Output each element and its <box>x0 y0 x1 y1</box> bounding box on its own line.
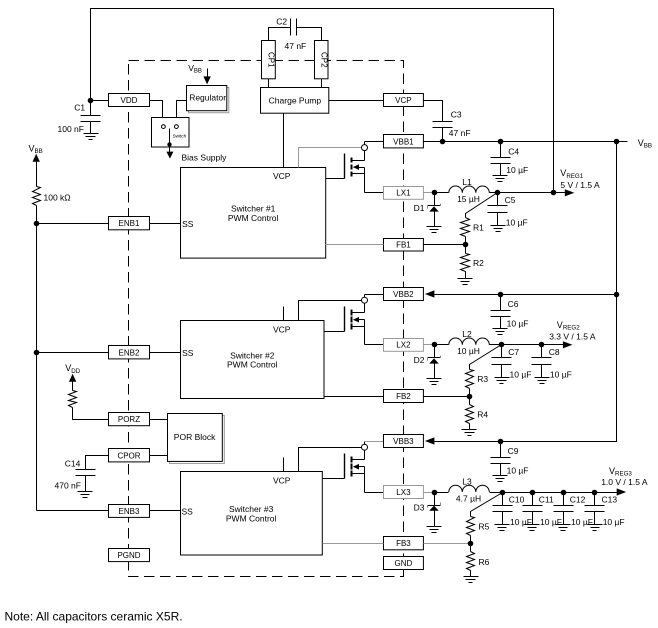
wire Q3 drain to VBB3 pin <box>364 442 366 445</box>
svg-text:47 nF: 47 nF <box>285 41 307 51</box>
wire R5 to FB node <box>470 536 472 544</box>
svg-text:FB3: FB3 <box>396 539 411 548</box>
wire FB2 to divider <box>424 396 470 398</box>
wire ENB1 to SS <box>150 223 181 225</box>
ground (C10) <box>495 524 510 526</box>
wire switcher #2 drive to bubble <box>299 301 362 321</box>
ground (R6) <box>464 576 479 578</box>
svg-text:Note: All capacitors ceramic X: Note: All capacitors ceramic X5R. <box>5 609 183 623</box>
ground (D1) <box>427 226 442 228</box>
wire Q3 source to LX3 pin <box>365 492 384 494</box>
svg-text:47 nF: 47 nF <box>449 128 471 138</box>
wire rail to ENB1 <box>37 223 109 225</box>
wire R4 to ground <box>469 424 471 430</box>
svg-text:VCP: VCP <box>273 324 291 334</box>
svg-text:10 µF: 10 µF <box>510 370 532 380</box>
wire Q2 source to LX2 pin <box>365 344 384 346</box>
wire L1 to output <box>490 192 566 194</box>
ground (C13) <box>588 524 603 526</box>
wire node to L1 <box>435 192 449 194</box>
pin PORZ <box>109 413 150 426</box>
svg-text:C5: C5 <box>505 195 516 205</box>
svg-text:C13: C13 <box>602 494 618 504</box>
svg-text:VBB2: VBB2 <box>393 290 414 299</box>
ground (C5) <box>491 225 506 227</box>
pin VCP <box>384 94 424 107</box>
node C6/VBB2 <box>498 292 504 298</box>
svg-text:CP1: CP1 <box>267 52 276 68</box>
node C8 <box>539 342 545 348</box>
wire charge pump to switcher 1 <box>283 114 285 168</box>
svg-text:POR Block: POR Block <box>174 432 216 442</box>
switch block <box>152 118 190 148</box>
arrow VREG2 output <box>563 341 573 348</box>
svg-text:PWM Control: PWM Control <box>228 213 279 223</box>
IC boundary (dashed) <box>129 61 404 577</box>
svg-text:10 µF: 10 µF <box>603 517 625 527</box>
capacitor C13 <box>594 493 596 506</box>
svg-text:R3: R3 <box>477 374 488 384</box>
wire LX3 to node <box>424 492 435 494</box>
svg-text:C9: C9 <box>508 446 519 456</box>
wire switcher #1 to FB1 <box>326 244 384 246</box>
capacitor C5 <box>497 193 499 206</box>
ground (C4) <box>493 175 508 177</box>
node C7 <box>499 342 505 348</box>
svg-text:VCP: VCP <box>273 171 291 181</box>
svg-text:C10: C10 <box>509 494 525 504</box>
wire L2 to output <box>490 344 564 346</box>
wire CP2 to charge pump <box>321 79 323 88</box>
wire VCP stub switcher 2 <box>283 307 285 321</box>
capacitor C6 <box>500 295 502 311</box>
arrow bias supply <box>169 148 171 153</box>
resistor R6 <box>467 552 475 571</box>
wire FB3 to divider <box>424 543 471 545</box>
pin PGND <box>109 549 150 562</box>
svg-text:SS: SS <box>182 507 194 517</box>
ground (R4) <box>462 429 477 431</box>
svg-text:VCP: VCP <box>395 96 411 105</box>
wire R6 to ground <box>470 571 472 577</box>
node C13 <box>592 490 598 496</box>
svg-text:10 µF: 10 µF <box>550 370 572 380</box>
wire switcher #3 to gate <box>323 478 345 480</box>
svg-text:FB2: FB2 <box>396 392 411 401</box>
svg-text:C3: C3 <box>451 110 462 120</box>
regulator U-REG shadow <box>189 88 229 113</box>
resistor R3 <box>466 370 474 389</box>
wire C1 junction to VDD pin <box>91 100 109 102</box>
svg-text:C12: C12 <box>570 494 586 504</box>
wire Q1 drain to VBB1 pin <box>364 142 366 145</box>
svg-text:C6: C6 <box>508 299 519 309</box>
switcher #2 PWM control block <box>181 321 325 399</box>
wire FB node to R2 <box>465 245 467 254</box>
wire R3 to FB node <box>469 389 471 397</box>
svg-text:10 µF: 10 µF <box>510 517 532 527</box>
regulator block <box>187 86 227 111</box>
svg-text:C1: C1 <box>74 103 85 113</box>
svg-text:L2: L2 <box>462 329 472 339</box>
capacitor C12 <box>563 493 565 506</box>
ground (C9) <box>493 475 508 477</box>
svg-text:470 nF: 470 nF <box>55 481 81 491</box>
wire switcher #3 to FB3 <box>323 543 384 545</box>
diode D2 (schottky) <box>434 345 436 358</box>
node FB1 divider <box>463 242 469 248</box>
wire node to R divider <box>471 493 503 517</box>
node C10 <box>500 490 506 496</box>
svg-text:C2: C2 <box>276 16 287 26</box>
POR block shadow <box>170 416 225 464</box>
wire node to R divider <box>470 345 502 370</box>
wire enable rail <box>36 206 38 511</box>
node VDD/C1 junction <box>88 98 94 104</box>
pin LX3 <box>384 486 424 499</box>
svg-text:L1: L1 <box>462 177 472 187</box>
capacitor C10 <box>502 493 504 506</box>
node LX2/D2 <box>432 342 438 348</box>
node C9/VBB3 <box>498 439 504 445</box>
gate bubble Q3 <box>362 444 368 450</box>
svg-text:R6: R6 <box>479 557 490 567</box>
wire FB node to R4 <box>469 397 471 405</box>
svg-text:CPOR: CPOR <box>117 451 140 460</box>
resistor R5 <box>467 517 475 536</box>
ground (C6) <box>493 328 508 330</box>
wire switcher #2 to FB2 <box>325 396 384 398</box>
node FB2 divider <box>467 394 473 400</box>
pin CP2 <box>315 41 329 79</box>
svg-text:10 µF: 10 µF <box>540 517 562 527</box>
node LX3/D3 <box>432 490 438 496</box>
switcher #3 PWM control block <box>181 472 323 556</box>
svg-text:10 µH: 10 µH <box>457 346 480 356</box>
resistor R2 <box>461 254 470 272</box>
svg-text:FB1: FB1 <box>396 240 411 249</box>
wire ENB2 to SS <box>150 352 181 354</box>
wire switcher #1 to gate <box>326 178 345 180</box>
svg-text:PWM Control: PWM Control <box>227 360 278 370</box>
svg-text:PGND: PGND <box>117 551 140 560</box>
wire PORZ to POR block <box>150 419 168 421</box>
pin VBB1 <box>384 135 424 148</box>
svg-text:R1: R1 <box>473 223 484 233</box>
svg-text:100 kΩ: 100 kΩ <box>44 192 71 202</box>
svg-text:Regulator: Regulator <box>189 93 226 103</box>
svg-text:10 µF: 10 µF <box>571 517 593 527</box>
wire ENB3 to SS <box>150 510 181 512</box>
resistor R4 <box>466 405 474 424</box>
svg-text:4.7 µH: 4.7 µH <box>456 493 481 503</box>
wire node to R divider <box>466 193 498 218</box>
gate bubble Q2 <box>362 297 368 303</box>
svg-text:D2: D2 <box>414 355 425 365</box>
wire rail to ENB2 <box>37 352 109 354</box>
wire R2 to ground <box>465 272 467 279</box>
svg-text:Charge Pump: Charge Pump <box>269 95 322 105</box>
svg-text:3.3 V / 1.5 A: 3.3 V / 1.5 A <box>549 332 596 342</box>
wire VCP to C3 <box>424 101 443 122</box>
inductor L1 <box>449 186 490 193</box>
node VBB rail/VBB2 <box>614 292 620 298</box>
inductor L2 <box>449 338 490 345</box>
capacitor C4 <box>500 142 502 158</box>
pin CPOR <box>109 449 150 462</box>
svg-text:5 V / 1.5 A: 5 V / 1.5 A <box>560 180 600 190</box>
node C5 <box>495 190 501 196</box>
transistor Q3 (PMOS high-side) <box>344 454 346 479</box>
wire Q2 drain to VBB2 pin <box>364 295 366 298</box>
svg-text:VBB3: VBB3 <box>393 437 414 446</box>
svg-text:15 µH: 15 µH <box>457 194 480 204</box>
svg-text:C4: C4 <box>508 147 519 157</box>
wire L3 to output <box>490 492 619 494</box>
wire charge pump to VCP pin <box>329 100 384 102</box>
ground (D3) <box>427 526 442 528</box>
ground (D2) <box>427 378 442 380</box>
svg-text:ENB2: ENB2 <box>119 348 140 357</box>
switch contact 1 <box>162 125 166 129</box>
wire node to L2 <box>435 344 449 346</box>
transistor Q1 (PMOS high-side) <box>344 154 346 179</box>
wire VDD to switch <box>150 101 163 125</box>
node LX1/D1 <box>432 190 438 196</box>
transistor Q2 (PMOS high-side) <box>344 307 346 332</box>
svg-text:ENB1: ENB1 <box>119 219 140 228</box>
inductor L3 <box>449 485 490 492</box>
wire VDD-to-VREG1 top rail <box>91 9 554 193</box>
wire CP1 to charge pump <box>268 79 270 88</box>
capacitor C1 <box>90 101 92 116</box>
resistor PORZ pull-up <box>69 391 77 408</box>
wire CPOR to C14 <box>86 456 109 470</box>
ground (C8) <box>535 377 550 379</box>
diode D3 (schottky) <box>434 493 436 506</box>
wire rail to VBB2 <box>435 294 617 296</box>
capacitor C3 <box>433 121 453 123</box>
svg-text:C14: C14 <box>65 459 81 469</box>
svg-text:PORZ: PORZ <box>118 415 140 424</box>
diode D1 (schottky) <box>434 193 436 206</box>
wire LX1 to node <box>424 192 435 194</box>
arrow VREG3 output <box>617 488 627 495</box>
pin FB3 <box>384 537 424 550</box>
pin LX1 <box>384 187 424 200</box>
wire VCP stub switcher 3 <box>283 458 285 472</box>
svg-text:R2: R2 <box>473 258 484 268</box>
pin VBB2 <box>384 288 424 301</box>
svg-text:1.0 V / 1.5 A: 1.0 V / 1.5 A <box>601 477 648 487</box>
svg-text:L3: L3 <box>462 476 472 486</box>
wire switcher #2 to gate <box>325 331 345 333</box>
svg-text:LX1: LX1 <box>396 189 411 198</box>
node C4/VBB1 <box>498 139 504 145</box>
wire VBB rail <box>435 142 617 442</box>
svg-text:10 µF: 10 µF <box>507 319 529 329</box>
svg-text:R5: R5 <box>479 521 490 531</box>
wire switcher #3 drive to bubble <box>299 448 362 472</box>
svg-text:ENB3: ENB3 <box>119 507 140 516</box>
ground (C12) <box>556 524 571 526</box>
arrow VBB into regulator <box>207 69 209 79</box>
svg-text:LX3: LX3 <box>396 488 411 497</box>
arrow into VBB2 <box>425 290 435 297</box>
svg-text:R4: R4 <box>477 410 488 420</box>
svg-text:VDD: VDD <box>121 96 138 105</box>
ground (C11) <box>525 524 540 526</box>
node VREG1/top-rail <box>551 190 557 196</box>
arrow VREG1 output <box>565 189 575 196</box>
arrow VBB up <box>33 154 40 162</box>
svg-text:C8: C8 <box>549 347 560 357</box>
svg-text:LX2: LX2 <box>396 341 411 350</box>
capacitor C11 <box>532 493 534 506</box>
ground (C7) <box>495 377 510 379</box>
svg-text:D1: D1 <box>414 203 425 213</box>
pin ENB2 <box>109 346 150 359</box>
charge pump block <box>261 88 329 114</box>
svg-text:Bias Supply: Bias Supply <box>182 152 228 162</box>
wire LX2 to node <box>424 344 435 346</box>
capacitor C2 <box>269 28 291 41</box>
svg-text:VBB1: VBB1 <box>393 137 414 146</box>
ground (C1) <box>84 133 99 135</box>
node C12 <box>561 490 567 496</box>
resistor R1 <box>461 218 470 237</box>
gate bubble Q1 <box>362 145 368 151</box>
node rail/ENB1 <box>34 221 40 227</box>
node VBB rail top <box>614 139 620 145</box>
svg-text:VCP: VCP <box>273 475 291 485</box>
svg-text:100 nF: 100 nF <box>58 124 84 134</box>
node C11 <box>530 490 536 496</box>
node rail/ENB2 <box>34 350 40 356</box>
svg-text:Switch: Switch <box>173 134 187 139</box>
svg-text:D3: D3 <box>414 502 425 512</box>
pin VDD <box>109 94 150 107</box>
svg-text:10 µF: 10 µF <box>507 466 529 476</box>
capacitor C8 <box>541 345 543 358</box>
switcher #1 PWM control block <box>181 168 326 259</box>
ground (R2) <box>458 278 473 280</box>
svg-text:C7: C7 <box>508 347 519 357</box>
svg-text:10 µF: 10 µF <box>506 218 528 228</box>
ground (C14) <box>78 491 93 493</box>
pin FB1 <box>384 239 424 252</box>
POR block <box>168 414 223 462</box>
svg-text:SS: SS <box>182 219 194 229</box>
pin FB2 <box>384 390 424 403</box>
arrow VDD up <box>69 374 76 382</box>
svg-text:PWM Control: PWM Control <box>226 513 277 523</box>
switch pole <box>169 129 171 145</box>
wire FB node to R6 <box>470 544 472 552</box>
svg-text:CP2: CP2 <box>319 52 328 68</box>
capacitor C14 <box>76 469 96 471</box>
capacitor C9 <box>500 442 502 458</box>
pin ENB1 <box>109 217 150 230</box>
pin LX2 <box>384 339 424 352</box>
resistor 100 kOhm <box>33 187 41 206</box>
pin VBB3 <box>384 435 424 448</box>
pin GND <box>384 557 424 570</box>
pin CP1 <box>262 41 276 79</box>
wire VBB1 to VBB rail <box>424 141 628 143</box>
svg-text:GND: GND <box>395 559 413 568</box>
arrow into VBB3 <box>425 437 435 444</box>
svg-text:SS: SS <box>182 348 194 358</box>
capacitor C7 <box>501 345 503 358</box>
node C3/VBB1 <box>440 139 446 145</box>
wire CPOR to POR block <box>150 455 168 457</box>
switch contact 2 <box>175 125 179 129</box>
pin ENB3 <box>109 505 150 518</box>
wire switcher #1 drive to bubble <box>299 148 362 168</box>
wire R1 to FB node <box>465 237 467 245</box>
wire Q1 source to LX1 pin <box>365 192 384 194</box>
svg-text:C11: C11 <box>539 494 554 504</box>
svg-text:10 µF: 10 µF <box>506 165 528 175</box>
wire node to L3 <box>435 492 449 494</box>
wire regulator to switch <box>177 101 187 125</box>
wire FB1 to divider <box>424 244 466 246</box>
wire resistor to PORZ <box>73 408 109 420</box>
node FB3 divider <box>468 541 474 547</box>
